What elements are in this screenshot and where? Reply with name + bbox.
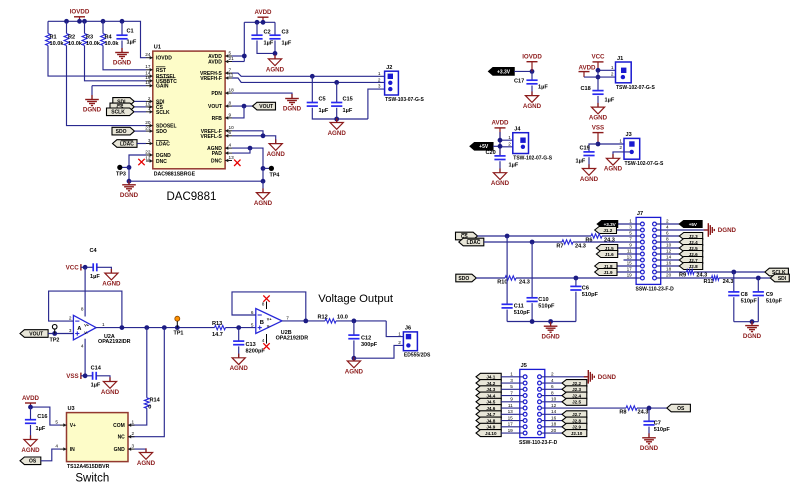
svg-text:510pF: 510pF bbox=[766, 298, 783, 304]
svg-text:19: 19 bbox=[508, 428, 514, 433]
svg-text:J3: J3 bbox=[626, 132, 632, 138]
svg-text:AVDD: AVDD bbox=[254, 9, 272, 16]
svg-text:9: 9 bbox=[229, 112, 232, 117]
svg-text:15: 15 bbox=[508, 415, 514, 420]
svg-text:J4.9: J4.9 bbox=[486, 425, 495, 430]
svg-text:C20: C20 bbox=[486, 150, 496, 156]
svg-text:R10: R10 bbox=[497, 279, 507, 285]
svg-text:8: 8 bbox=[551, 390, 554, 395]
svg-text:J4.6: J4.6 bbox=[486, 406, 495, 411]
svg-text:1: 1 bbox=[508, 135, 511, 140]
svg-text:C1: C1 bbox=[127, 29, 134, 35]
svg-text:AGND: AGND bbox=[267, 151, 286, 158]
svg-text:2: 2 bbox=[611, 72, 614, 77]
svg-text:DAC9881SBRGE: DAC9881SBRGE bbox=[154, 171, 196, 177]
svg-text:C12: C12 bbox=[361, 336, 371, 342]
svg-text:C15: C15 bbox=[343, 97, 353, 103]
svg-text:AVDD: AVDD bbox=[208, 60, 222, 66]
svg-text:8200pF: 8200pF bbox=[246, 348, 266, 354]
svg-text:J4.10: J4.10 bbox=[485, 431, 497, 436]
svg-text:VREFL-S: VREFL-S bbox=[201, 134, 223, 140]
svg-text:7: 7 bbox=[510, 390, 513, 395]
svg-text:8: 8 bbox=[262, 301, 265, 306]
svg-text:J4.3: J4.3 bbox=[486, 387, 495, 392]
svg-text:4: 4 bbox=[262, 338, 265, 343]
svg-text:TS12A4515DBVR: TS12A4515DBVR bbox=[67, 464, 110, 470]
svg-text:2: 2 bbox=[619, 145, 622, 150]
svg-text:4: 4 bbox=[551, 378, 554, 383]
svg-text:2: 2 bbox=[666, 219, 669, 224]
svg-text:1: 1 bbox=[378, 71, 381, 76]
svg-text:SSW-110-23-F-D: SSW-110-23-F-D bbox=[636, 287, 675, 293]
svg-text:2: 2 bbox=[398, 340, 401, 345]
svg-text:J2.7: J2.7 bbox=[572, 412, 581, 417]
svg-text:2: 2 bbox=[378, 77, 381, 82]
svg-text:J7: J7 bbox=[637, 211, 643, 217]
svg-text:8: 8 bbox=[666, 237, 669, 242]
svg-text:DGND: DGND bbox=[83, 107, 102, 114]
svg-text:5: 5 bbox=[510, 384, 513, 389]
svg-text:3: 3 bbox=[69, 328, 72, 333]
svg-text:V+: V+ bbox=[267, 317, 273, 321]
svg-text:510pF: 510pF bbox=[741, 298, 758, 304]
svg-text:510pF: 510pF bbox=[538, 303, 555, 309]
svg-text:1: 1 bbox=[398, 331, 401, 336]
svg-text:1µF: 1µF bbox=[509, 162, 519, 168]
svg-text:18: 18 bbox=[666, 267, 672, 272]
svg-text:C8: C8 bbox=[741, 292, 748, 298]
svg-text:J4.7: J4.7 bbox=[486, 412, 495, 417]
svg-text:510pF: 510pF bbox=[582, 292, 599, 298]
svg-text:U3: U3 bbox=[68, 406, 75, 412]
svg-text:1: 1 bbox=[510, 372, 513, 377]
svg-text:SDO: SDO bbox=[156, 129, 167, 135]
svg-text:4: 4 bbox=[229, 143, 232, 148]
svg-text:1µF: 1µF bbox=[91, 382, 101, 388]
svg-text:AGND: AGND bbox=[230, 365, 249, 372]
svg-text:J4: J4 bbox=[514, 127, 521, 133]
svg-text:OPA2192IDR: OPA2192IDR bbox=[276, 335, 309, 341]
svg-text:AGND: AGND bbox=[580, 176, 599, 183]
svg-text:1µF: 1µF bbox=[576, 158, 586, 164]
svg-text:AGND: AGND bbox=[137, 460, 156, 467]
svg-text:R2: R2 bbox=[68, 35, 75, 41]
svg-text:J5: J5 bbox=[521, 363, 527, 369]
svg-text:DNC: DNC bbox=[156, 159, 167, 165]
svg-text:AGND: AGND bbox=[102, 281, 121, 288]
svg-text:C18: C18 bbox=[581, 86, 591, 92]
svg-text:12: 12 bbox=[666, 249, 672, 254]
svg-text:OPA2192IDR: OPA2192IDR bbox=[98, 339, 131, 345]
svg-text:ED555/2DS: ED555/2DS bbox=[404, 353, 431, 359]
svg-text:24.3: 24.3 bbox=[638, 409, 649, 415]
svg-text:R1: R1 bbox=[50, 35, 57, 41]
svg-text:1: 1 bbox=[102, 322, 105, 327]
svg-text:TSW-102-07-G-S: TSW-102-07-G-S bbox=[513, 156, 552, 162]
svg-text:Switch: Switch bbox=[75, 473, 109, 485]
svg-text:J2.10: J2.10 bbox=[571, 431, 583, 436]
svg-text:16: 16 bbox=[551, 415, 557, 420]
svg-text:J1.6: J1.6 bbox=[605, 252, 614, 257]
svg-text:VSS: VSS bbox=[592, 124, 604, 131]
svg-text:J2.9: J2.9 bbox=[572, 425, 581, 430]
svg-text:C19: C19 bbox=[580, 145, 590, 151]
svg-text:20: 20 bbox=[551, 428, 557, 433]
svg-text:10: 10 bbox=[551, 397, 557, 402]
svg-text:GND: GND bbox=[114, 447, 126, 453]
svg-text:5: 5 bbox=[251, 322, 254, 327]
svg-text:J2: J2 bbox=[386, 65, 392, 71]
svg-text:C5: C5 bbox=[319, 97, 326, 103]
svg-text:PAD: PAD bbox=[212, 151, 223, 157]
svg-text:AVDD: AVDD bbox=[491, 120, 509, 127]
svg-text:11: 11 bbox=[627, 249, 632, 254]
svg-text:DGND: DGND bbox=[541, 333, 560, 340]
svg-text:AGND: AGND bbox=[589, 115, 608, 122]
svg-text:J2.8: J2.8 bbox=[572, 418, 581, 423]
svg-text:IOVDD: IOVDD bbox=[156, 56, 172, 62]
svg-text:SDO: SDO bbox=[116, 129, 127, 135]
svg-text:2: 2 bbox=[132, 431, 135, 436]
svg-text:10.0k: 10.0k bbox=[50, 41, 65, 47]
svg-text:16: 16 bbox=[666, 261, 672, 266]
svg-text:RST: RST bbox=[156, 68, 166, 74]
svg-text:13: 13 bbox=[627, 255, 633, 260]
svg-text:SCLK: SCLK bbox=[156, 110, 170, 116]
svg-text:R14: R14 bbox=[150, 398, 161, 404]
svg-text:DGND: DGND bbox=[718, 227, 737, 234]
svg-text:R3: R3 bbox=[86, 35, 93, 41]
svg-text:COM: COM bbox=[113, 423, 125, 429]
svg-text:J4.8: J4.8 bbox=[486, 418, 495, 423]
svg-text:20: 20 bbox=[666, 273, 672, 278]
svg-text:10: 10 bbox=[666, 243, 672, 248]
svg-text:6: 6 bbox=[229, 130, 232, 135]
svg-text:R7: R7 bbox=[556, 243, 563, 249]
svg-text:J2.5: J2.5 bbox=[572, 400, 581, 405]
svg-text:1: 1 bbox=[148, 106, 151, 111]
svg-text:C4: C4 bbox=[90, 248, 98, 254]
svg-text:J2.8: J2.8 bbox=[689, 264, 698, 269]
svg-text:1µF: 1µF bbox=[605, 98, 615, 104]
svg-text:VOUT: VOUT bbox=[29, 331, 43, 337]
svg-text:5: 5 bbox=[55, 420, 58, 425]
svg-text:7: 7 bbox=[629, 237, 632, 242]
svg-text:SDI: SDI bbox=[778, 276, 787, 282]
svg-text:18: 18 bbox=[551, 422, 557, 427]
svg-text:TSW-102-07-G-S: TSW-102-07-G-S bbox=[625, 161, 664, 167]
svg-text:IOVDD: IOVDD bbox=[522, 54, 542, 61]
svg-text:DAC9881: DAC9881 bbox=[167, 191, 217, 203]
svg-text:C17: C17 bbox=[514, 79, 524, 85]
svg-text:6: 6 bbox=[551, 384, 554, 389]
svg-text:OS: OS bbox=[677, 406, 685, 412]
svg-text:8: 8 bbox=[229, 101, 232, 106]
svg-text:12: 12 bbox=[145, 155, 151, 160]
svg-text:TP3: TP3 bbox=[116, 172, 126, 178]
svg-text:R13: R13 bbox=[212, 321, 222, 327]
svg-text:AGND: AGND bbox=[254, 200, 273, 207]
svg-text:NC: NC bbox=[118, 435, 126, 441]
svg-text:2: 2 bbox=[551, 372, 554, 377]
svg-text:J1.9: J1.9 bbox=[604, 270, 613, 275]
svg-text:14.7: 14.7 bbox=[212, 332, 223, 338]
svg-text:AGND: AGND bbox=[523, 103, 542, 110]
svg-text:510pF: 510pF bbox=[654, 427, 671, 433]
svg-text:2: 2 bbox=[148, 96, 151, 101]
svg-text:J2.4: J2.4 bbox=[572, 393, 581, 398]
svg-text:SCLK: SCLK bbox=[111, 110, 125, 116]
svg-text:0: 0 bbox=[148, 404, 151, 410]
svg-text:10.0: 10.0 bbox=[337, 315, 348, 321]
svg-text:C7: C7 bbox=[654, 420, 661, 426]
svg-text:V+: V+ bbox=[84, 323, 90, 327]
svg-text:1µF: 1µF bbox=[282, 41, 292, 47]
svg-text:R12: R12 bbox=[318, 315, 328, 321]
svg-text:1µF: 1µF bbox=[90, 274, 100, 280]
svg-text:DGND: DGND bbox=[120, 192, 139, 199]
svg-text:17: 17 bbox=[145, 64, 151, 69]
svg-text:TP2: TP2 bbox=[50, 338, 60, 344]
svg-text:AGND: AGND bbox=[101, 389, 120, 396]
svg-text:1: 1 bbox=[619, 139, 622, 144]
svg-text:IOVDD: IOVDD bbox=[70, 9, 90, 16]
svg-text:J4.1: J4.1 bbox=[486, 375, 495, 380]
svg-text:1µF: 1µF bbox=[36, 426, 46, 432]
svg-text:6: 6 bbox=[666, 231, 669, 236]
svg-text:VSS: VSS bbox=[66, 373, 78, 380]
svg-text:12: 12 bbox=[551, 403, 557, 408]
svg-text:3: 3 bbox=[510, 378, 513, 383]
svg-text:8: 8 bbox=[81, 307, 84, 312]
svg-text:2: 2 bbox=[508, 141, 511, 146]
svg-text:C3: C3 bbox=[282, 30, 289, 36]
svg-text:1: 1 bbox=[132, 420, 135, 425]
svg-text:C2: C2 bbox=[264, 30, 271, 36]
svg-text:AGND: AGND bbox=[328, 130, 347, 137]
svg-text:10.0k: 10.0k bbox=[105, 41, 120, 47]
svg-text:19: 19 bbox=[627, 273, 633, 278]
svg-text:3: 3 bbox=[629, 225, 632, 230]
svg-text:7: 7 bbox=[286, 315, 289, 320]
svg-text:AGND: AGND bbox=[345, 368, 364, 375]
svg-text:+3.3V: +3.3V bbox=[497, 69, 511, 75]
svg-text:AGND: AGND bbox=[604, 166, 623, 173]
svg-text:VCC: VCC bbox=[66, 265, 80, 272]
svg-text:6: 6 bbox=[251, 310, 254, 315]
svg-text:DGND: DGND bbox=[743, 333, 762, 340]
svg-text:1µF: 1µF bbox=[264, 41, 274, 47]
svg-text:DGND: DGND bbox=[283, 106, 302, 113]
svg-text:C14: C14 bbox=[91, 366, 102, 372]
svg-text:J2.2: J2.2 bbox=[572, 381, 581, 386]
svg-text:SSW-110-23-F-D: SSW-110-23-F-D bbox=[519, 440, 558, 446]
svg-text:15: 15 bbox=[145, 80, 151, 85]
svg-text:510pF: 510pF bbox=[514, 310, 531, 316]
svg-text:V+: V+ bbox=[70, 423, 76, 429]
svg-text:TSW-103-07-G-S: TSW-103-07-G-S bbox=[385, 97, 424, 103]
svg-text:TP1: TP1 bbox=[174, 331, 184, 337]
svg-text:J6: J6 bbox=[405, 326, 411, 332]
svg-text:5: 5 bbox=[629, 231, 632, 236]
svg-text:LDAC: LDAC bbox=[120, 141, 134, 147]
svg-text:R4: R4 bbox=[105, 35, 113, 41]
svg-text:14: 14 bbox=[666, 255, 672, 260]
svg-text:AVDD: AVDD bbox=[578, 65, 596, 72]
svg-text:AGND: AGND bbox=[21, 447, 40, 454]
svg-text:3: 3 bbox=[378, 84, 381, 89]
svg-text:GAIN: GAIN bbox=[156, 84, 169, 90]
svg-text:2: 2 bbox=[69, 316, 72, 321]
svg-text:3: 3 bbox=[132, 444, 135, 449]
svg-text:J2.3: J2.3 bbox=[572, 387, 581, 392]
svg-text:C11: C11 bbox=[514, 304, 524, 310]
svg-text:300pF: 300pF bbox=[361, 342, 378, 348]
svg-text:R11: R11 bbox=[704, 279, 714, 285]
svg-text:4: 4 bbox=[666, 225, 669, 230]
svg-text:IN: IN bbox=[70, 447, 75, 453]
svg-text:17: 17 bbox=[508, 422, 514, 427]
svg-text:4: 4 bbox=[81, 344, 84, 349]
svg-text:+5V: +5V bbox=[689, 222, 698, 227]
svg-text:22: 22 bbox=[145, 149, 151, 154]
svg-text:J4.5: J4.5 bbox=[486, 400, 495, 405]
svg-text:15: 15 bbox=[627, 261, 633, 266]
svg-text:DGND: DGND bbox=[640, 445, 659, 452]
svg-text:3: 3 bbox=[148, 138, 151, 143]
svg-text:RFB: RFB bbox=[212, 116, 223, 122]
svg-text:23: 23 bbox=[145, 126, 151, 131]
svg-text:C6: C6 bbox=[582, 285, 589, 291]
svg-text:24.3: 24.3 bbox=[575, 243, 586, 249]
svg-text:17: 17 bbox=[627, 267, 633, 272]
svg-text:10.0k: 10.0k bbox=[86, 41, 101, 47]
svg-text:TP4: TP4 bbox=[270, 173, 280, 179]
svg-text:J4.4: J4.4 bbox=[486, 393, 495, 398]
svg-text:C16: C16 bbox=[37, 414, 47, 420]
svg-text:C13: C13 bbox=[246, 342, 256, 348]
svg-text:J1.2: J1.2 bbox=[603, 228, 612, 233]
svg-text:18: 18 bbox=[229, 88, 235, 93]
svg-text:Voltage Output: Voltage Output bbox=[318, 293, 394, 305]
svg-text:24: 24 bbox=[145, 52, 151, 57]
svg-text:DGND: DGND bbox=[598, 374, 617, 381]
svg-text:AVDD: AVDD bbox=[22, 395, 40, 402]
svg-text:U1: U1 bbox=[154, 45, 161, 51]
svg-text:11: 11 bbox=[508, 403, 513, 408]
svg-text:VREFH-F: VREFH-F bbox=[200, 76, 222, 82]
svg-text:B: B bbox=[260, 320, 264, 326]
svg-text:AGND: AGND bbox=[491, 180, 510, 187]
svg-text:13: 13 bbox=[229, 155, 235, 160]
svg-text:LDAC: LDAC bbox=[467, 240, 481, 246]
svg-text:10.0k: 10.0k bbox=[68, 41, 83, 47]
svg-text:J1: J1 bbox=[617, 56, 623, 62]
svg-text:1: 1 bbox=[611, 65, 614, 70]
svg-text:1: 1 bbox=[629, 219, 632, 224]
svg-text:1µF: 1µF bbox=[127, 40, 137, 46]
svg-text:DGND: DGND bbox=[113, 60, 132, 67]
svg-text:24.3: 24.3 bbox=[519, 279, 530, 285]
svg-text:24.3: 24.3 bbox=[723, 279, 734, 285]
svg-text:4: 4 bbox=[55, 444, 58, 449]
svg-text:1µF: 1µF bbox=[343, 108, 353, 114]
svg-text:5: 5 bbox=[229, 50, 232, 55]
svg-text:9: 9 bbox=[629, 243, 632, 248]
svg-text:VOUT: VOUT bbox=[208, 104, 222, 110]
svg-text:TSW-102-07-G-S: TSW-102-07-G-S bbox=[616, 85, 655, 91]
svg-text:J4.2: J4.2 bbox=[486, 381, 495, 386]
svg-text:LDAC: LDAC bbox=[156, 142, 170, 148]
svg-text:13: 13 bbox=[508, 409, 514, 414]
svg-text:1µF: 1µF bbox=[538, 85, 548, 91]
svg-text:AGND: AGND bbox=[266, 66, 285, 73]
svg-text:1µF: 1µF bbox=[319, 108, 329, 114]
svg-text:PDN: PDN bbox=[211, 91, 222, 97]
svg-text:14: 14 bbox=[551, 409, 557, 414]
svg-text:9: 9 bbox=[510, 397, 513, 402]
svg-text:DNC: DNC bbox=[211, 159, 222, 165]
svg-text:OS: OS bbox=[29, 459, 37, 465]
svg-text:R8: R8 bbox=[619, 409, 626, 415]
svg-text:20: 20 bbox=[145, 120, 151, 125]
svg-text:VCC: VCC bbox=[591, 54, 605, 61]
svg-text:VOUT: VOUT bbox=[259, 104, 273, 110]
svg-text:C9: C9 bbox=[766, 292, 773, 298]
svg-text:C10: C10 bbox=[538, 297, 548, 303]
svg-text:21: 21 bbox=[229, 56, 235, 61]
svg-text:SDO: SDO bbox=[458, 276, 469, 282]
